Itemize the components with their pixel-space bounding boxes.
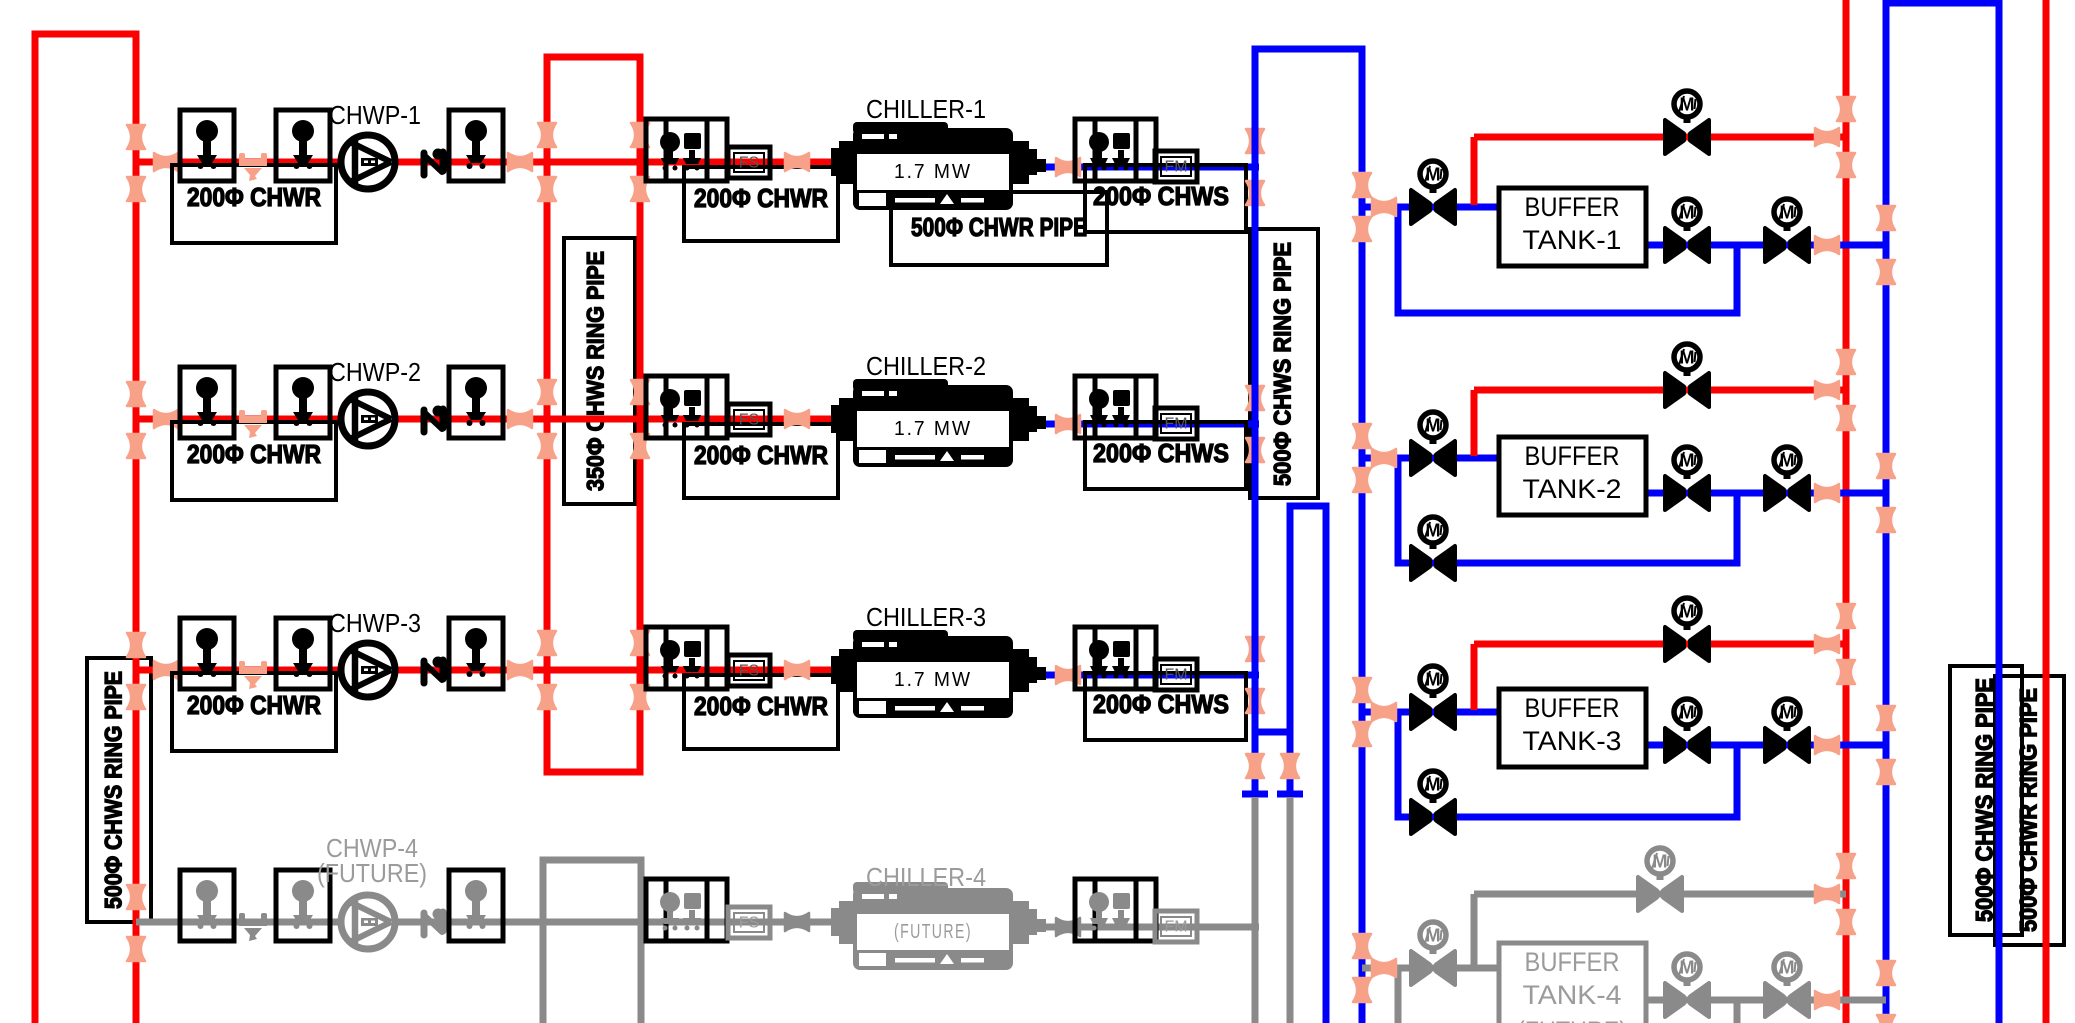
svg-text:350Φ CHWS RING PIPE: 350Φ CHWS RING PIPE	[583, 251, 610, 491]
svg-text:FS: FS	[739, 155, 759, 172]
wire CHWR row 1 (suction header to chiller)	[136, 159, 838, 166]
label box 200P CHWR (pump suction row 1)	[172, 165, 336, 243]
svg-text:M: M	[1780, 703, 1795, 723]
gauge PI2 (pump inlet row 3)	[276, 618, 330, 689]
valve pair on CHWS ring (right) at tank 3	[1877, 706, 1895, 730]
valve MV21 (tank inlet, motorized)	[1372, 449, 1396, 467]
valve pair on CHWS ring riser row 3	[1246, 637, 1264, 661]
svg-text:(FUTURE): (FUTURE)	[894, 921, 972, 943]
valve pair on CHWS ring (right) at tank 4	[1877, 961, 1895, 985]
pipe 500P CHWS ring (right, blue)	[1886, 3, 1999, 1023]
svg-text:M: M	[1426, 521, 1441, 541]
valve V101 (branch isolation)	[154, 153, 178, 171]
gauge PI (pump suction row 1)	[180, 110, 234, 181]
wire CHWS row 3 (chiller to ring)	[1040, 672, 1259, 679]
svg-text:FM: FM	[1164, 416, 1187, 433]
strainer row 3	[239, 661, 267, 689]
svg-text:500Φ CHWR RING PIPE: 500Φ CHWR RING PIPE	[2016, 688, 2043, 932]
valve pair on CHWS ring at tank 2 branch	[1353, 424, 1371, 448]
wire CHWR row 4 (suction header to chiller)	[136, 919, 838, 926]
label box 200P CHWS (chiller outlet row 2)	[1085, 422, 1246, 489]
svg-text:M: M	[1426, 416, 1441, 436]
buffer tank 3	[1499, 689, 1646, 767]
svg-text:M: M	[1426, 926, 1441, 946]
svg-text:M: M	[1680, 703, 1695, 723]
svg-text:FS: FS	[739, 412, 759, 429]
svg-text:200Φ CHWR: 200Φ CHWR	[694, 691, 828, 721]
svg-text:(FUTURE): (FUTURE)	[317, 858, 427, 888]
svg-text:1.7 MW: 1.7 MW	[894, 669, 972, 691]
pump CHWP-2	[341, 392, 395, 446]
svg-text:500Φ CHWR PIPE: 500Φ CHWR PIPE	[911, 212, 1087, 242]
valve pair on CHWS ring at tank 3 branch	[1353, 678, 1371, 702]
valve on header stub	[1281, 754, 1299, 778]
valve on ring stub	[1246, 754, 1264, 778]
valve V303 (chiller inlet)	[785, 661, 809, 679]
flow switch FS row 2	[728, 404, 770, 435]
wire CHWR row 3 (suction header to chiller)	[136, 667, 838, 674]
wire tank 2 CHWR connection (riser)	[1471, 390, 1478, 456]
valve MV43 (tank outlet, motorized)	[1665, 954, 1709, 1017]
valve on outlet at riser	[1815, 736, 1839, 754]
valve V104 (chiller outlet)	[1056, 158, 1080, 176]
valve V201 (branch isolation)	[154, 410, 178, 428]
pipe future riser (gray)	[1252, 797, 1259, 1023]
label box 200P CHWS (chiller outlet row 1)	[1085, 165, 1246, 232]
valve pair on ring right riser row 3	[631, 631, 649, 655]
label box 200P CHWR (chiller inlet row 2)	[684, 424, 838, 498]
svg-text:200Φ CHWR: 200Φ CHWR	[694, 440, 828, 470]
valve on CHWR branch at riser	[1815, 381, 1839, 399]
wire tank 1 inlet	[1362, 204, 1499, 211]
valve pair on CHWS ring at tank 1 branch	[1353, 173, 1371, 197]
label box 350P CHWS RING PIPE (middle ring)	[564, 238, 635, 504]
wire tank 4 inlet	[1362, 965, 1499, 972]
valve V304 (chiller outlet)	[1056, 666, 1080, 684]
svg-text:FM: FM	[1164, 919, 1187, 936]
valve V302 (pump discharge)	[508, 661, 532, 679]
svg-text:1.7 MW: 1.7 MW	[894, 418, 972, 440]
pump CHWP-4	[341, 895, 395, 949]
instrument pair (chiller inlet row 1)	[646, 119, 727, 181]
gauge PI (pump suction row 3)	[180, 618, 234, 689]
valve pair on ring left riser row 1	[538, 123, 556, 147]
wire tank 1 bypass loop	[1398, 207, 1737, 313]
wire tank 3 CHWR connection (to main riser)	[1474, 641, 1846, 648]
gauge PI3 (pump discharge row 4)	[449, 870, 503, 941]
label box 200P CHWR (chiller inlet row 1)	[684, 167, 838, 241]
chiller CHILLER-4	[831, 882, 1046, 970]
svg-text:TANK-1: TANK-1	[1523, 225, 1622, 255]
valve MV22 (CHWR branch, motorized)	[1665, 344, 1709, 407]
svg-text:M: M	[1680, 451, 1695, 471]
wire CHWR row 2 (suction header to chiller)	[136, 416, 838, 423]
svg-text:500Φ CHWS RING PIPE: 500Φ CHWS RING PIPE	[101, 671, 128, 909]
flow meter FM row 2	[1155, 408, 1197, 439]
pipe future CHWS header (blue U)	[1290, 506, 1326, 1023]
instrument pair (chiller outlet row 3)	[1075, 627, 1156, 689]
label box 500P CHWR RING PIPE (far right)	[1995, 676, 2064, 945]
valve pair on CHWS ring at tank 4 branch	[1353, 934, 1371, 958]
svg-text:M: M	[1426, 670, 1441, 690]
valve V204 (chiller outlet)	[1056, 415, 1080, 433]
flange cap (ring stub)	[1242, 791, 1268, 798]
flange cap (header stub)	[1277, 791, 1303, 798]
pipe 500P CHWS ring (far left, red)	[35, 34, 136, 1023]
svg-text:BUFFER: BUFFER	[1525, 192, 1620, 222]
valve MV34 (outlet isolation, motorized)	[1765, 699, 1809, 762]
valve pair on ring right riser row 2	[631, 380, 649, 404]
valve pair on CHWR riser at tank 4	[1837, 854, 1855, 878]
valve MV11 (tank inlet, motorized)	[1372, 198, 1396, 216]
wire tank 4 CHWR connection (to main riser)	[1474, 891, 1846, 898]
valve MV24 (outlet isolation, motorized)	[1765, 447, 1809, 510]
wire tank 3 inlet	[1362, 709, 1499, 716]
gauge PI2 (pump inlet row 2)	[276, 367, 330, 438]
svg-text:M: M	[1680, 602, 1695, 622]
svg-text:CHILLER-3: CHILLER-3	[866, 602, 986, 632]
strainer row 4	[239, 913, 267, 941]
svg-text:CHWP-1: CHWP-1	[329, 100, 421, 130]
instrument pair (chiller outlet row 1)	[1075, 119, 1156, 181]
wire tank 4 bypass loop	[1395, 968, 1402, 1023]
valve pair on CHWS ring riser row 2	[1246, 386, 1264, 410]
svg-text:200Φ CHWS: 200Φ CHWS	[1093, 181, 1229, 211]
buffer tank 4	[1499, 943, 1646, 1023]
valve MV41 (tank inlet, motorized)	[1372, 959, 1396, 977]
label box 500P CHWR PIPE	[891, 192, 1107, 265]
pipe 500P CHWR ring (far right, red)	[2043, 0, 2050, 1023]
wire tank 2 bypass loop	[1398, 458, 1737, 563]
svg-text:200Φ CHWR: 200Φ CHWR	[187, 439, 321, 469]
svg-text:BUFFER: BUFFER	[1525, 441, 1620, 471]
svg-text:200Φ CHWR: 200Φ CHWR	[694, 183, 828, 213]
label box 200P CHWS (chiller outlet row 3)	[1085, 673, 1246, 740]
svg-text:CHILLER-2: CHILLER-2	[866, 351, 986, 381]
valve MV13 (tank outlet, motorized)	[1665, 199, 1709, 262]
svg-text:200Φ CHWS: 200Φ CHWS	[1093, 689, 1229, 719]
svg-text:1.7 MW: 1.7 MW	[894, 161, 972, 183]
valve V403 (chiller inlet)	[785, 913, 809, 931]
wire tank 4 outlet	[1646, 997, 1886, 1004]
svg-text:M: M	[1426, 775, 1441, 795]
check valve row 4	[424, 909, 444, 936]
strainer row 1	[239, 153, 267, 181]
instrument pair (chiller inlet row 2)	[646, 376, 727, 438]
valve pair on CHWR riser at tank 1	[1837, 97, 1855, 121]
check valve row 2	[424, 406, 444, 433]
check valve row 1	[424, 149, 444, 176]
valve on outlet at riser	[1815, 484, 1839, 502]
instrument pair (chiller inlet row 4)	[646, 879, 727, 941]
svg-text:FM: FM	[1164, 159, 1187, 176]
svg-text:CHILLER-4: CHILLER-4	[866, 862, 986, 892]
valve V404 (chiller outlet)	[1056, 918, 1080, 936]
svg-text:M: M	[1680, 203, 1695, 223]
flow switch FS row 3	[728, 655, 770, 686]
valve pair on CHWR riser at tank 3	[1837, 604, 1855, 628]
flow switch FS row 1	[728, 147, 770, 178]
svg-text:TANK-4: TANK-4	[1523, 980, 1622, 1010]
wire tank 3 CHWR connection (riser)	[1471, 644, 1478, 710]
wire CHWS row 4 (chiller to ring)	[1040, 924, 1259, 931]
valve V202 (pump discharge)	[508, 410, 532, 428]
chiller CHILLER-1	[831, 122, 1046, 210]
valve on outlet at riser	[1815, 991, 1839, 1009]
label box 200P CHWR (pump suction row 2)	[172, 422, 336, 500]
valve MV14 (outlet isolation, motorized)	[1765, 199, 1809, 262]
valve pair on ring left riser row 3	[538, 631, 556, 655]
wire tank 2 outlet	[1646, 490, 1886, 497]
valve pair on suction riser row 3	[127, 633, 145, 657]
gauge PI3 (pump discharge row 2)	[449, 367, 503, 438]
valve MV23 (tank outlet, motorized)	[1665, 447, 1709, 510]
wire CHWS row 2 (chiller to ring)	[1040, 421, 1259, 428]
svg-text:(FUTURE): (FUTURE)	[1517, 1016, 1627, 1023]
gauge PI (pump suction row 4)	[180, 870, 234, 941]
svg-text:M: M	[1653, 852, 1668, 872]
svg-text:M: M	[1780, 958, 1795, 978]
chiller CHILLER-3	[831, 630, 1046, 718]
valve pair on suction riser row 1	[127, 125, 145, 149]
valve pair on ring right riser row 1	[631, 123, 649, 147]
buffer tank 2	[1499, 437, 1646, 515]
svg-text:CHWP-2: CHWP-2	[329, 357, 421, 387]
pipe CHWR riser (right, red)	[1843, 0, 1850, 1023]
wire tank 1 CHWR connection (to main riser)	[1474, 134, 1846, 141]
flow meter FM row 1	[1155, 151, 1197, 182]
svg-text:FS: FS	[739, 915, 759, 932]
pump CHWP-3	[341, 643, 395, 697]
valve MV25 (bypass loop, motorized)	[1411, 517, 1455, 580]
valve V103 (chiller inlet)	[785, 153, 809, 171]
gauge PI (pump suction row 2)	[180, 367, 234, 438]
label box 500P CHWS RING PIPE (right)	[1950, 666, 2022, 935]
flow meter FM row 3	[1155, 659, 1197, 690]
gauge PI3 (pump discharge row 3)	[449, 618, 503, 689]
flow meter FM row 4	[1155, 911, 1197, 942]
svg-text:M: M	[1780, 203, 1795, 223]
label box 500P CHWS RING PIPE (left)	[87, 658, 151, 922]
valve MV35 (bypass loop, motorized)	[1411, 771, 1455, 834]
label box 200P CHWR (chiller inlet row 3)	[684, 675, 838, 749]
valve on CHWR branch at riser	[1815, 635, 1839, 653]
valve MV12 (CHWR branch, motorized)	[1665, 91, 1709, 154]
wire CHWS row 1 (chiller to ring)	[1040, 164, 1259, 171]
valve V301 (branch isolation)	[154, 661, 178, 679]
svg-text:200Φ CHWS: 200Φ CHWS	[1093, 438, 1229, 468]
valve pair on CHWS ring (right) at tank 1	[1877, 206, 1895, 230]
pipe 350P ring (middle, red)	[547, 57, 640, 772]
svg-text:BUFFER: BUFFER	[1525, 947, 1620, 977]
instrument pair (chiller outlet row 4)	[1075, 879, 1156, 941]
valve pair on CHWR riser at tank 2	[1837, 350, 1855, 374]
label box 500P CHWS RING PIPE (blue ring)	[1250, 229, 1318, 498]
svg-text:CHILLER-1: CHILLER-1	[866, 94, 986, 124]
wire tank 1 CHWR connection (riser)	[1471, 137, 1478, 205]
svg-text:BUFFER: BUFFER	[1525, 693, 1620, 723]
pipe future ring (middle, gray)	[543, 860, 641, 1023]
gauge PI2 (pump inlet row 4)	[276, 870, 330, 941]
valve MV42 (CHWR branch, motorized)	[1638, 848, 1682, 911]
svg-text:M: M	[1680, 95, 1695, 115]
svg-text:200Φ CHWR: 200Φ CHWR	[187, 690, 321, 720]
check valve row 3	[424, 657, 444, 684]
valve V102 (pump discharge)	[508, 153, 532, 171]
label box 200P CHWR (pump suction row 3)	[172, 673, 336, 751]
wire tank 2 CHWR connection (to main riser)	[1474, 387, 1846, 394]
flow switch FS row 4	[728, 907, 770, 938]
svg-text:TANK-2: TANK-2	[1523, 474, 1622, 504]
instrument pair (chiller inlet row 3)	[646, 627, 727, 689]
valve MV32 (CHWR branch, motorized)	[1665, 598, 1709, 661]
svg-text:FM: FM	[1164, 667, 1187, 684]
wire tank 3 outlet	[1646, 742, 1886, 749]
buffer tank 1	[1499, 188, 1646, 266]
svg-text:CHWP-3: CHWP-3	[329, 608, 421, 638]
valve MV33 (tank outlet, motorized)	[1665, 699, 1709, 762]
valve MV31 (tank inlet, motorized)	[1372, 703, 1396, 721]
gauge PI3 (pump discharge row 1)	[449, 110, 503, 181]
valve pair on CHWS ring riser row 1	[1246, 129, 1264, 153]
valve pair on CHWS ring (right) at tank 2	[1877, 454, 1895, 478]
strainer row 2	[239, 410, 267, 438]
pump CHWP-1	[341, 135, 395, 189]
valve pair on ring left riser row 2	[538, 380, 556, 404]
svg-text:TANK-3: TANK-3	[1523, 726, 1622, 756]
svg-text:M: M	[1680, 958, 1695, 978]
wire tank 1 outlet	[1646, 242, 1886, 249]
gauge PI2 (pump inlet row 1)	[276, 110, 330, 181]
svg-text:200Φ CHWR: 200Φ CHWR	[187, 182, 321, 212]
chiller CHILLER-2	[831, 379, 1046, 467]
instrument pair (chiller outlet row 2)	[1075, 376, 1156, 438]
wire tank 4 CHWR connection (riser)	[1471, 894, 1478, 966]
svg-text:M: M	[1680, 348, 1695, 368]
svg-text:500Φ CHWS RING PIPE: 500Φ CHWS RING PIPE	[1270, 242, 1297, 486]
wire header interconnect	[1255, 729, 1290, 736]
valve pair on suction riser row 2	[127, 382, 145, 406]
valve on CHWR branch at riser	[1815, 128, 1839, 146]
valve MV44 (outlet isolation, motorized)	[1765, 954, 1809, 1017]
valve on outlet at riser	[1815, 236, 1839, 254]
valve on CHWR branch at riser	[1815, 885, 1839, 903]
pipe future riser 2 (gray)	[1287, 797, 1294, 1023]
svg-text:M: M	[1426, 165, 1441, 185]
valve V203 (chiller inlet)	[785, 410, 809, 428]
svg-text:M: M	[1780, 451, 1795, 471]
pipe 500P CHWS ring (middle, blue)	[1255, 49, 1362, 1023]
wire tank 3 bypass loop	[1398, 712, 1737, 817]
valve pair on suction riser row 4	[127, 885, 145, 909]
wire tank 2 inlet	[1362, 455, 1499, 462]
svg-text:FS: FS	[739, 663, 759, 680]
